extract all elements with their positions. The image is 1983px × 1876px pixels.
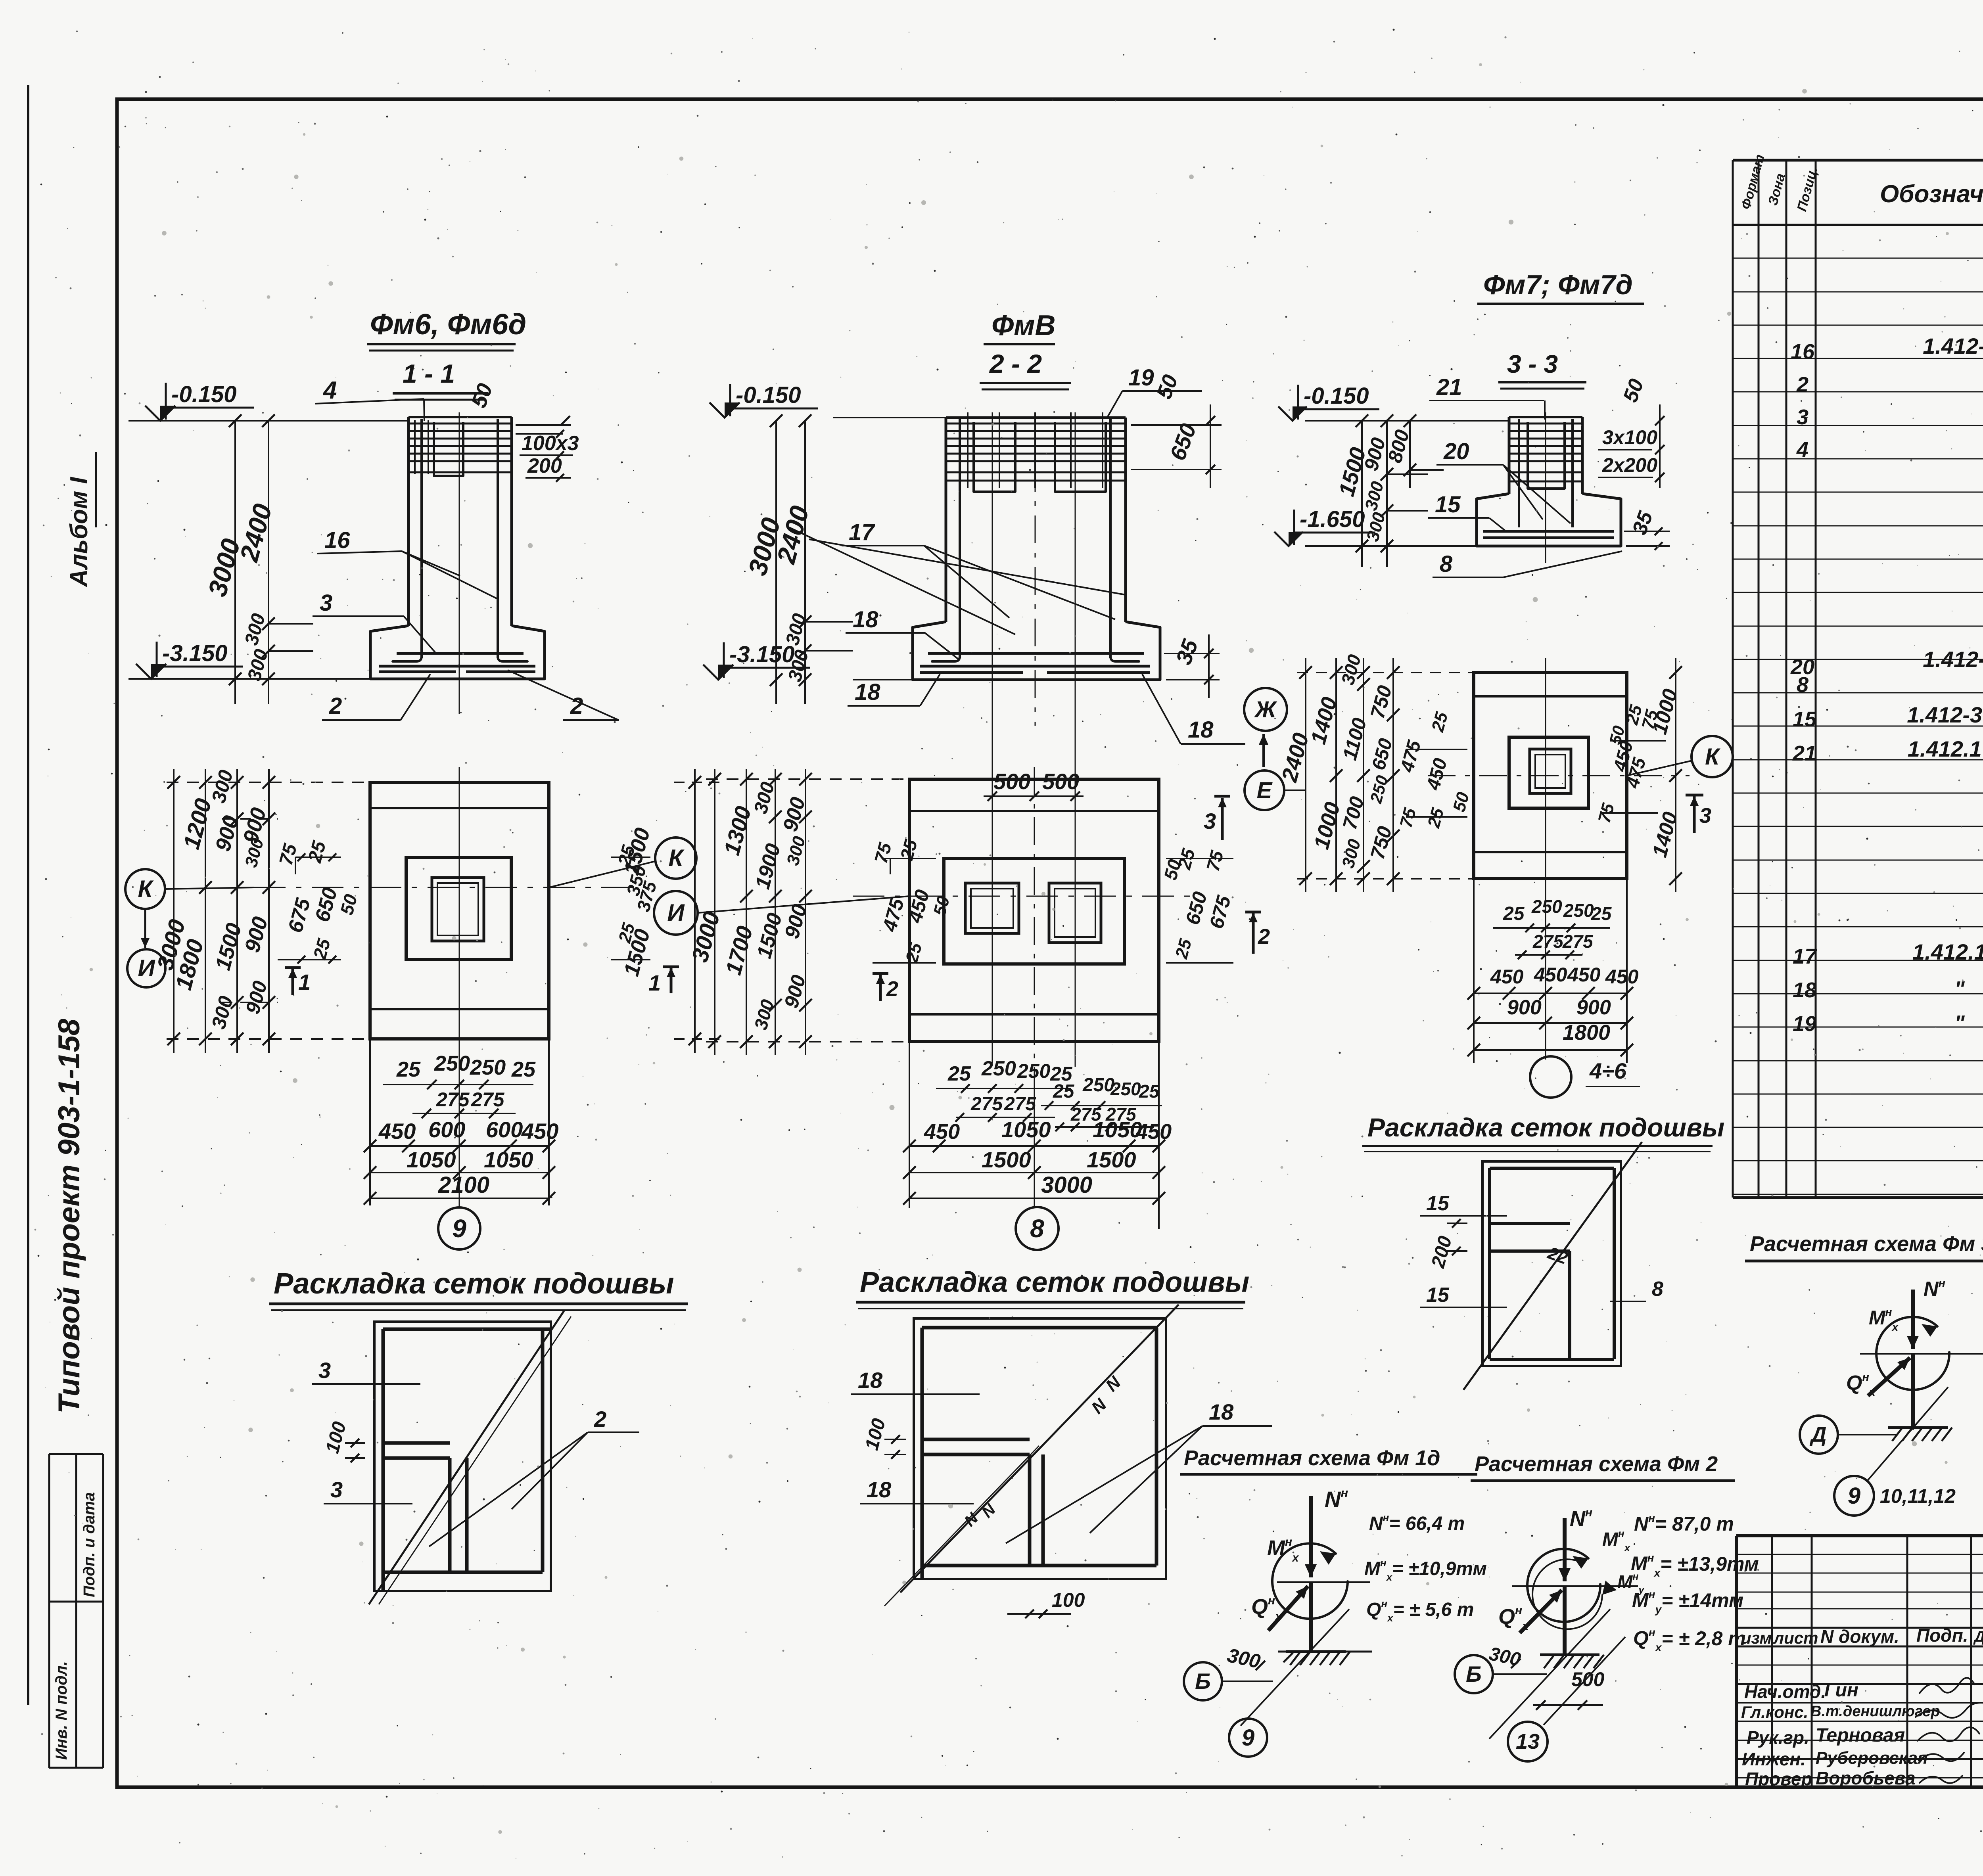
svg-text:Гин: Гин: [1824, 1680, 1858, 1701]
scheme Фм3 Q arrow: [1868, 1358, 1910, 1396]
svg-text:450: 450: [1135, 1120, 1172, 1144]
svg-text:-3.150: -3.150: [162, 640, 227, 666]
svg-text:N докум.: N докум.: [1820, 1626, 1899, 1647]
scheme Фм3 circle 9 with 10,11,12: [1834, 1476, 1874, 1516]
scheme Фм1д moment arc: [1272, 1543, 1348, 1619]
svg-text:3: 3: [1204, 809, 1216, 834]
svg-text:450: 450: [924, 1120, 960, 1144]
axis circle К (right of plan Фм7): [1691, 736, 1733, 777]
plan Фм6 outer rectangle: [370, 782, 549, 1039]
svg-text:Подп.: Подп.: [1916, 1625, 1968, 1646]
svg-text:": ": [1954, 977, 1965, 1001]
svg-text:250: 250: [1110, 1079, 1141, 1099]
scheme Фм1д column and node: [1309, 1496, 1313, 1577]
svg-text:Расчетная схема Фм 2: Расчетная схема Фм 2: [1475, 1452, 1718, 1476]
plan Фм8 sheet circle 8: [1034, 1071, 1035, 1208]
plan Фм7 inner band lines: [1474, 695, 1627, 698]
scheme Фм3 column and node: [1911, 1290, 1915, 1349]
section 2-2 footing outline: [913, 622, 1160, 680]
section cut mark 2 (left): [873, 972, 888, 975]
svg-text:275: 275: [1562, 931, 1594, 952]
svg-text:18: 18: [855, 679, 880, 705]
svg-text:3: 3: [318, 1358, 331, 1383]
svg-text:К: К: [669, 845, 685, 871]
svg-text:25: 25: [1503, 903, 1525, 924]
svg-text:Нач.отд.: Нач.отд.: [1744, 1681, 1826, 1702]
section 2-2 ground line: [833, 417, 947, 418]
svg-text:25: 25: [396, 1058, 421, 1081]
svg-text:17: 17: [849, 519, 875, 545]
svg-text:250: 250: [1082, 1075, 1114, 1096]
plan Фм7 outer rectangle: [1474, 673, 1627, 879]
svg-text:275: 275: [970, 1094, 1003, 1115]
svg-text:1800: 1800: [1563, 1021, 1610, 1044]
svg-text:16: 16: [1791, 340, 1815, 364]
svg-text:изм: изм: [1741, 1629, 1772, 1647]
svg-text:1050: 1050: [407, 1147, 456, 1172]
plan Фм8 left pocket: [965, 883, 1019, 933]
svg-text:Ж: Ж: [1254, 697, 1277, 722]
svg-text:Рук.гр.: Рук.гр.: [1747, 1727, 1809, 1748]
scheme Фм2 moment arcs: [1527, 1549, 1600, 1622]
svg-text:Инжен.: Инжен.: [1742, 1749, 1806, 1769]
leader from И circle to plan Фм8: [698, 896, 909, 913]
table row lines: [1733, 258, 1983, 259]
mesh square Фм8 outer: [914, 1318, 1166, 1579]
margin stamp boxes: [49, 1453, 103, 1455]
scheme Фм1д Q arrow: [1268, 1586, 1308, 1631]
section 2-2 rebar verticals: [959, 419, 961, 658]
scheme Фм2 ground: [1540, 1654, 1599, 1656]
mesh square Фм7: [1482, 1161, 1621, 1366]
svg-text:3: 3: [330, 1477, 343, 1502]
svg-text:-0.150: -0.150: [1304, 383, 1369, 409]
mesh square Фм6 outer: [374, 1322, 551, 1591]
svg-text:К: К: [1705, 744, 1720, 770]
section 2-2 left dim 3000: [775, 421, 777, 704]
svg-text:450: 450: [1534, 964, 1567, 986]
svg-text:Дата: Дата: [1973, 1629, 1983, 1645]
mesh Фм7 diagonal: [1463, 1142, 1642, 1390]
scheme Фм1д circle 9: [1229, 1719, 1267, 1757]
svg-text:275: 275: [1532, 931, 1564, 952]
svg-text:4÷6: 4÷6: [1589, 1058, 1627, 1083]
svg-text:15: 15: [1435, 492, 1461, 517]
section 2-2 top rebar grid: [947, 423, 1125, 425]
svg-text:Е: Е: [1257, 778, 1273, 803]
svg-text:2 - 2: 2 - 2: [989, 349, 1042, 378]
svg-text:9: 9: [452, 1214, 466, 1243]
scheme Фм3 moment arc: [1876, 1317, 1949, 1390]
section 2-2 column outline: [945, 418, 947, 622]
svg-text:10,11,12: 10,11,12: [1880, 1485, 1956, 1507]
section 3-3 footing mesh: [1483, 530, 1614, 533]
svg-text:900: 900: [1507, 996, 1542, 1019]
plan Фм7 sheet circle 4÷6: [1545, 892, 1546, 1060]
plan Фм7 inner square: [1509, 737, 1588, 808]
svg-text:13: 13: [1516, 1730, 1540, 1753]
svg-text:К: К: [138, 876, 154, 902]
svg-text:25: 25: [1053, 1081, 1075, 1102]
scheme Фм2 Q arrow: [1520, 1590, 1562, 1633]
title block frame: [1736, 1534, 1983, 1537]
svg-text:1500: 1500: [982, 1147, 1031, 1172]
svg-text:4: 4: [1796, 438, 1808, 462]
svg-text:2x200: 2x200: [1602, 454, 1657, 476]
scheme Фм3 axis diagonal: [1866, 1387, 1948, 1482]
svg-text:2: 2: [1258, 925, 1270, 949]
section 2-2 footing mesh: [928, 652, 1144, 655]
svg-text:1050: 1050: [1001, 1117, 1051, 1142]
svg-text:Терновая: Терновая: [1816, 1725, 1905, 1746]
svg-text:2: 2: [570, 693, 583, 719]
section 1-1 top rebar grid: [409, 423, 511, 425]
svg-text:18: 18: [867, 1477, 892, 1502]
svg-text:250: 250: [434, 1052, 470, 1075]
table header row: [1733, 224, 1983, 226]
svg-text:275: 275: [471, 1088, 505, 1111]
svg-text:450: 450: [378, 1119, 416, 1144]
plan Фм8 left dimension chains: [714, 769, 715, 1055]
section 1-1 footing mesh lines: [397, 652, 524, 655]
svg-text:17: 17: [1793, 945, 1818, 968]
section 1-1 dim line 2400 / 300 300: [268, 421, 269, 704]
plan Фм6 pocket inner lines: [432, 878, 484, 941]
svg-text:100: 100: [1052, 1589, 1085, 1611]
svg-text:Раскладка сеток подошвы: Раскладка сеток подошвы: [274, 1267, 674, 1300]
svg-text:Раскладка сеток подошвы: Раскладка сеток подошвы: [1367, 1113, 1724, 1142]
axis circles K and И (right of plan): [655, 837, 696, 879]
svg-text:Б: Б: [1466, 1661, 1482, 1686]
svg-text:3: 3: [320, 590, 332, 616]
svg-text:Инв. N подл.: Инв. N подл.: [53, 1661, 70, 1760]
svg-text:18: 18: [1793, 978, 1816, 1002]
svg-text:-0.150: -0.150: [171, 381, 236, 407]
svg-text:2100: 2100: [438, 1172, 489, 1198]
svg-text:Раскладка сеток подошвы: Раскладка сеток подошвы: [860, 1267, 1249, 1298]
mesh Фм8 diagonals: [900, 1305, 1179, 1592]
section cut mark 1 (right): [663, 966, 679, 968]
svg-text:1.412.1 вып. II: 1.412.1 вып. II: [1908, 736, 1983, 761]
svg-text:И: И: [667, 899, 685, 926]
svg-text:Б: Б: [1195, 1669, 1211, 1694]
plan Фм8 right pocket: [1049, 883, 1101, 943]
svg-text:Обозначение: Обозначение: [1880, 180, 1983, 208]
section 1-1 centre axis: [459, 412, 460, 714]
section cut mark 1 (left): [285, 966, 301, 969]
svg-text:Типовой проект 903-1-158: Типовой проект 903-1-158: [52, 1018, 86, 1414]
svg-text:500: 500: [1042, 769, 1079, 794]
title block left columns: [1771, 1536, 1773, 1787]
section 3-3 column outline: [1508, 417, 1511, 494]
svg-text:25: 25: [1591, 903, 1612, 924]
svg-text:900: 900: [1576, 996, 1611, 1019]
plan Фм6 inner square (column pocket): [406, 857, 511, 960]
svg-text:1 - 1: 1 - 1: [403, 359, 455, 388]
svg-text:И: И: [138, 955, 155, 981]
mesh Фм6 inner grid: [383, 1328, 551, 1331]
svg-text:Д: Д: [1810, 1423, 1827, 1447]
svg-text:25: 25: [511, 1058, 536, 1081]
plan Фм6 inner band lines: [370, 807, 549, 809]
section cut mark 3 (top right): [1214, 795, 1230, 798]
svg-text:1.412.1 вып. III: 1.412.1 вып. III: [1912, 939, 1983, 964]
mesh Фм6 diagonals: [369, 1311, 564, 1604]
svg-text:18: 18: [853, 607, 878, 632]
signatures scribbles: [1920, 1678, 1975, 1693]
rebar hook U shapes: [974, 422, 1015, 492]
scheme Фм1д ground: [1286, 1650, 1346, 1653]
title block left rows: [1736, 1554, 1983, 1555]
svg-text:3: 3: [1699, 804, 1711, 828]
rebar bottom hooks: [393, 646, 422, 661]
section 1-1 ground line (-0.150): [128, 420, 409, 422]
svg-text:9: 9: [1848, 1483, 1860, 1509]
svg-text:1: 1: [298, 970, 311, 995]
scheme Фм2 axis diagonal: [1489, 1609, 1610, 1739]
mesh Фм8 inner grid: [922, 1326, 1158, 1330]
section 3-3 footing outline: [1477, 494, 1621, 546]
section 3-3 left dims 1500 900 300 300 800: [1361, 421, 1363, 567]
scheme Фм1д axis diagonal: [1241, 1609, 1349, 1726]
rebar hook U-shape: [434, 422, 463, 476]
svg-text:16: 16: [324, 527, 350, 553]
svg-text:3000: 3000: [1041, 1172, 1092, 1198]
svg-text:450: 450: [1567, 964, 1601, 986]
svg-text:450: 450: [521, 1119, 558, 1144]
svg-text:": ": [1954, 1011, 1965, 1035]
svg-text:250: 250: [1531, 896, 1562, 917]
svg-text:1050: 1050: [484, 1147, 533, 1172]
svg-text:450: 450: [1490, 966, 1524, 988]
svg-text:3 - 3: 3 - 3: [1507, 350, 1558, 378]
plan Фм6 centrelines: [459, 767, 460, 1055]
section 2-2 dim 2400 300 300: [804, 421, 806, 704]
svg-text:Воробьева: Воробьева: [1816, 1768, 1916, 1788]
svg-text:18: 18: [1209, 1399, 1234, 1424]
svg-text:Руберовская: Руберовская: [1816, 1748, 1928, 1768]
svg-text:21: 21: [1436, 374, 1462, 400]
svg-text:500: 500: [993, 769, 1030, 794]
svg-text:Фм6, Фм6д: Фм6, Фм6д: [370, 308, 526, 341]
svg-text:18: 18: [858, 1368, 883, 1393]
svg-text:18: 18: [1188, 717, 1214, 743]
section 2-2 centre axes: [1035, 412, 1036, 726]
svg-text:3x100: 3x100: [1602, 426, 1657, 448]
section 1-1 footing outline: [370, 626, 545, 679]
svg-text:8: 8: [1030, 1214, 1044, 1243]
scheme Фм3 circle Д: [1800, 1416, 1838, 1454]
svg-text:25: 25: [1139, 1081, 1160, 1102]
svg-text:Фм7; Фм7д: Фм7; Фм7д: [1483, 269, 1633, 300]
svg-text:100x3: 100x3: [522, 432, 579, 455]
svg-text:2: 2: [1796, 373, 1808, 397]
section cut mark 2 (right): [1245, 911, 1261, 914]
svg-text:500: 500: [1571, 1668, 1605, 1690]
svg-text:25: 25: [947, 1062, 971, 1085]
plan Фм6 sheet circle 9: [459, 1055, 460, 1208]
scheme Фм1д circle Б: [1184, 1662, 1222, 1700]
svg-text:8: 8: [1652, 1278, 1663, 1301]
svg-text:8: 8: [1797, 673, 1808, 697]
svg-text:21: 21: [1792, 742, 1816, 765]
svg-text:250: 250: [981, 1057, 1016, 1080]
scheme Фм2 circle 13: [1544, 1637, 1625, 1725]
svg-text:9: 9: [1242, 1725, 1254, 1751]
plan Фм8 centrelines: [992, 769, 993, 1063]
svg-text:Подп. и дата: Подп. и дата: [81, 1492, 98, 1597]
section 3-3 rebar: [1510, 423, 1582, 425]
plan Фм8 inner rectangle: [944, 858, 1124, 964]
svg-text:275: 275: [436, 1088, 470, 1111]
svg-text:250: 250: [470, 1056, 506, 1079]
plan Фм8 outer rectangle: [909, 779, 1159, 1042]
plan Фм7 centrelines: [1545, 658, 1546, 892]
svg-text:250: 250: [1563, 900, 1594, 921]
svg-text:8: 8: [1440, 551, 1453, 577]
svg-text:4: 4: [322, 377, 337, 404]
axis circle Ж with arrow and circle Е: [1244, 688, 1287, 731]
svg-text:ФмВ: ФмВ: [991, 310, 1055, 341]
big diagonal crack lines: [789, 527, 1015, 634]
section 3-3 axis: [1545, 412, 1546, 563]
svg-text:Расчетная схема Фм 3: Расчетная схема Фм 3: [1750, 1232, 1983, 1256]
sheet outer margin line: [27, 85, 29, 1705]
section 1-1 left dim line 3000: [234, 421, 236, 704]
svg-text:250: 250: [1017, 1060, 1051, 1082]
svg-text:Альбом I: Альбом I: [65, 476, 93, 588]
svg-text:2: 2: [329, 693, 342, 719]
plan Фм7 right dims 1000 1400: [1675, 658, 1676, 892]
svg-text:275: 275: [1004, 1094, 1036, 1115]
svg-text:20: 20: [1443, 439, 1469, 464]
scheme Фм2 column and node: [1563, 1518, 1567, 1581]
svg-text:19: 19: [1793, 1012, 1816, 1036]
section 3-3 ground line: [1305, 420, 1510, 422]
svg-text:2: 2: [886, 977, 898, 1001]
svg-text:15: 15: [1426, 1192, 1450, 1215]
svg-text:Расчетная схема Фм 1д: Расчетная схема Фм 1д: [1184, 1446, 1440, 1470]
svg-text:15: 15: [1426, 1284, 1450, 1307]
axis circles K and И (left): [125, 869, 165, 909]
specification table frame: [1732, 160, 1734, 1198]
svg-text:450: 450: [1605, 966, 1639, 988]
svg-text:Гл.конс.: Гл.конс.: [1741, 1703, 1808, 1721]
plan Фм8 inner band lines: [909, 810, 1159, 812]
svg-text:1050: 1050: [1093, 1117, 1142, 1142]
svg-text:15: 15: [1793, 707, 1817, 731]
svg-text:1500: 1500: [1087, 1147, 1136, 1172]
svg-text:1.412-3 вып. II: 1.412-3 вып. II: [1923, 333, 1983, 358]
svg-text:2: 2: [594, 1407, 606, 1431]
svg-text:-0.150: -0.150: [736, 382, 801, 408]
svg-text:600: 600: [486, 1117, 523, 1142]
plan Фм6 left dimension chains: [173, 769, 175, 1053]
section 1-1 column outline: [407, 417, 410, 626]
svg-text:19: 19: [1128, 365, 1154, 391]
plan Фм7 left dim chains: [1305, 658, 1306, 892]
scheme Фм3 ground: [1888, 1426, 1948, 1429]
svg-text:1.412-1 вып. II: 1.412-1 вып. II: [1923, 647, 1983, 672]
svg-text:1.412-3 вып. II: 1.412-3 вып. II: [1907, 702, 1983, 727]
scan noise speckles: [1644, 69, 1645, 71]
svg-text:-1.650: -1.650: [1300, 506, 1365, 532]
scheme Фм2 circle Б: [1455, 1655, 1493, 1693]
svg-text:лист: лист: [1773, 1629, 1818, 1647]
svg-text:-3.150: -3.150: [729, 642, 794, 667]
svg-text:Провер: Провер: [1745, 1769, 1812, 1789]
section 1-1 column rebar verticals: [420, 419, 423, 658]
section cut mark 3 (below К): [1686, 794, 1703, 797]
svg-text:В.т.денишлюгер: В.т.денишлюгер: [1810, 1703, 1940, 1720]
svg-text:1: 1: [648, 970, 661, 995]
